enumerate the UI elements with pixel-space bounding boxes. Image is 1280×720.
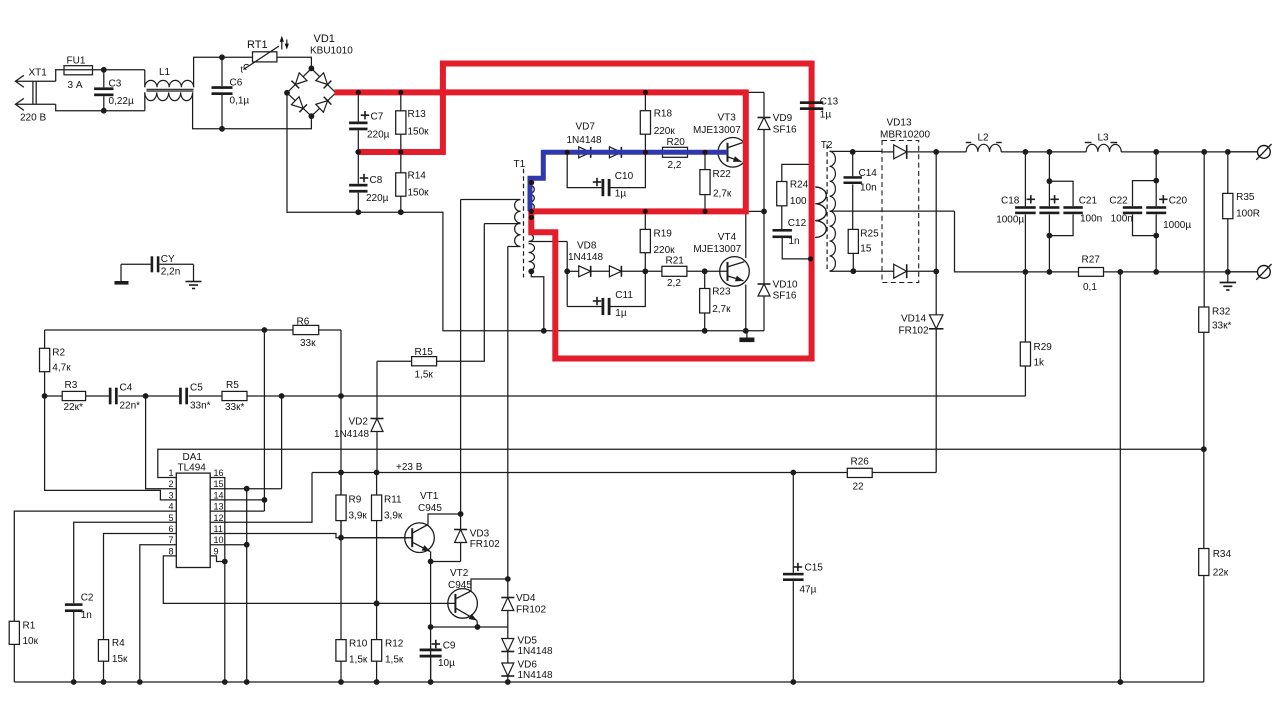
diode VD3 FR102: [460, 200, 462, 529]
svg-text:VD6: VD6: [518, 660, 538, 671]
wire +23V rail: [312, 472, 794, 474]
wire w2 column to C11: [566, 242, 568, 307]
svg-text:C945: C945: [418, 503, 442, 514]
wire pin16 pin9 to ground rail: [210, 478, 225, 683]
resistor R9: [338, 470, 344, 476]
wire pin3 from R2 R3 node: [45, 396, 177, 500]
ground rail bottom: [14, 681, 1204, 683]
capacitor C7: [355, 90, 361, 96]
diode VD5 1N4148: [507, 627, 509, 639]
T1 winding w3 base drive VT4: [529, 244, 535, 271]
resistor R21: [662, 266, 687, 276]
output terminal plus: [1228, 151, 1258, 153]
svg-text:VT4: VT4: [718, 232, 737, 243]
wire C7C8 midpoint to C13 loop: [358, 64, 812, 153]
svg-text:C8: C8: [370, 175, 383, 186]
svg-text:VD9: VD9: [773, 113, 793, 124]
resistor R10: [338, 535, 344, 541]
svg-text:1µ: 1µ: [820, 110, 832, 121]
wire R2 R6 rail: [45, 329, 265, 331]
svg-text:CY: CY: [161, 254, 175, 265]
chassis ground symbol: [746, 331, 748, 338]
diode VD9 SF16: [746, 91, 764, 93]
svg-text:R5: R5: [226, 380, 239, 391]
svg-text:220µ: 220µ: [366, 193, 389, 204]
svg-text:VD2: VD2: [349, 417, 369, 428]
diode VD14 FR102: [935, 271, 937, 314]
svg-text:MJE13007: MJE13007: [693, 125, 741, 136]
diode VD10 SF16: [758, 284, 770, 296]
svg-text:VD10: VD10: [773, 280, 798, 291]
svg-text:VD5: VD5: [518, 636, 538, 647]
svg-text:VT1: VT1: [420, 491, 439, 502]
capacitor C5: [179, 388, 182, 405]
wire base drive path w1 to VT3 base: [530, 152, 728, 211]
svg-text:1000µ: 1000µ: [996, 215, 1024, 226]
svg-text:R13: R13: [408, 109, 427, 120]
junction dots on highlighted paths: [356, 90, 361, 95]
T2 secondary winding: [830, 151, 836, 271]
svg-text:T1: T1: [514, 159, 526, 170]
earth ground at output: [1227, 272, 1229, 283]
capacitor C18: [1023, 149, 1029, 155]
svg-text:R32: R32: [1212, 307, 1231, 318]
red highlight primary current path main loop: [335, 92, 746, 211]
svg-text:0,1µ: 0,1µ: [230, 96, 250, 107]
wire pin8 to VT2 base line: [163, 556, 455, 604]
svg-text:MBR10200: MBR10200: [880, 130, 930, 141]
wire bridge minus to C8 rail: [287, 93, 358, 212]
svg-text:R2: R2: [52, 348, 65, 359]
svg-text:VD8: VD8: [577, 241, 597, 252]
svg-text:14: 14: [214, 490, 224, 500]
svg-text:2,2: 2,2: [667, 278, 681, 289]
resistor R6: [293, 325, 319, 334]
svg-text:R35: R35: [1236, 192, 1255, 203]
wire R26 to VD14 column: [935, 333, 937, 473]
svg-text:22: 22: [853, 482, 865, 493]
resistor R12: [374, 601, 380, 607]
svg-text:R4: R4: [112, 638, 125, 649]
wire VD13 cathodes column: [933, 149, 939, 155]
svg-text:VT3: VT3: [718, 113, 737, 124]
wire T1 primary tap to R15: [484, 223, 520, 225]
svg-text:L1: L1: [159, 67, 171, 78]
capacitor C2: [65, 603, 83, 606]
svg-text:R10: R10: [349, 639, 368, 650]
svg-text:R25: R25: [860, 229, 879, 240]
svg-text:4,7к: 4,7к: [52, 363, 71, 374]
svg-text:1n: 1n: [789, 236, 800, 247]
svg-text:22n*: 22n*: [120, 401, 141, 412]
wire pin11 to VT1 base: [210, 534, 412, 538]
svg-text:10: 10: [214, 535, 224, 545]
resistor R35: [1201, 149, 1207, 155]
capacitor C9: [420, 649, 442, 652]
capacitor CY: [121, 263, 151, 265]
T2 primary winding: [815, 187, 826, 237]
resistor R15: [377, 360, 412, 362]
svg-text:R14: R14: [408, 171, 427, 182]
wire secondary top to VD13: [882, 151, 894, 153]
svg-text:100: 100: [790, 196, 807, 207]
wire pin15 pin10 ground column: [246, 489, 248, 682]
svg-text:1,5к: 1,5к: [349, 655, 368, 666]
svg-text:33n*: 33n*: [190, 401, 211, 412]
svg-text:9: 9: [214, 546, 219, 556]
svg-text:1000µ: 1000µ: [1163, 220, 1191, 231]
svg-text:1k: 1k: [1034, 358, 1046, 369]
wire VT4 emitter to ground: [745, 285, 747, 331]
T2 primary winding redrawn: [815, 187, 826, 237]
wire feedback line R3 C4 C5 R5: [45, 395, 63, 397]
svg-text:2,7к: 2,7к: [712, 304, 731, 315]
svg-text:12: 12: [214, 513, 224, 523]
wire T2 primary red column: [811, 165, 813, 359]
svg-text:22к*: 22к*: [64, 402, 83, 413]
svg-text:FR102: FR102: [470, 539, 500, 550]
svg-text:100n: 100n: [1080, 214, 1102, 225]
svg-text:4: 4: [168, 502, 173, 512]
rectifier VD13 MBR10200 dashed box: [882, 141, 919, 283]
svg-text:R21: R21: [666, 256, 685, 267]
svg-text:R11: R11: [384, 495, 402, 506]
resistor R23: [687, 270, 728, 272]
wire pin13: [210, 510, 264, 512]
svg-text:R34: R34: [1213, 549, 1232, 560]
svg-text:C21: C21: [1079, 196, 1098, 207]
svg-text:2,7к: 2,7к: [713, 189, 732, 200]
svg-text:C10: C10: [615, 171, 634, 182]
svg-text:R29: R29: [1034, 342, 1053, 353]
svg-text:C12: C12: [788, 218, 807, 229]
svg-text:1N4148: 1N4148: [568, 252, 603, 263]
svg-text:VD7: VD7: [576, 122, 596, 133]
T1 winding w1 base drive VT3: [528, 180, 534, 186]
resistor R3: [62, 391, 85, 400]
resistor R26: [847, 468, 872, 477]
svg-text:KBU1010: KBU1010: [310, 46, 353, 57]
svg-text:C6: C6: [230, 78, 243, 89]
svg-text:C22: C22: [1109, 196, 1128, 207]
wire pin14: [210, 499, 264, 501]
svg-text:MJE13007: MJE13007: [693, 244, 741, 255]
wire w3 bottom to negative rail: [531, 271, 544, 330]
svg-text:2: 2: [168, 479, 173, 489]
svg-text:1,5к: 1,5к: [385, 655, 404, 666]
svg-text:1,5к: 1,5к: [415, 370, 434, 381]
capacitor C6: [219, 54, 225, 60]
wire +23V to C15: [790, 470, 796, 476]
svg-text:C9: C9: [443, 641, 456, 652]
svg-text:FU1: FU1: [67, 56, 86, 67]
svg-text:3,9к: 3,9к: [349, 511, 368, 522]
wire control ground return column: [1119, 272, 1121, 682]
capacitor C19 electrolytic: [1047, 149, 1053, 155]
wire VT2 emitter: [476, 621, 479, 628]
wire center tap to 0V rail: [955, 211, 1026, 272]
svg-text:220к: 220к: [654, 245, 676, 256]
wire pin13 pin14 column: [263, 330, 265, 511]
wire pin1 to R32 R34 node: [158, 449, 1204, 477]
wire w2 bottom to VD8 column: [529, 241, 568, 243]
svg-text:TL494: TL494: [178, 463, 207, 474]
svg-text:VD1: VD1: [314, 33, 335, 45]
resistor R2: [44, 330, 46, 348]
svg-text:C18: C18: [1001, 196, 1020, 207]
diode VD13 top: [894, 145, 907, 159]
capacitor C8: [355, 149, 361, 155]
svg-text:2,2: 2,2: [668, 160, 682, 171]
svg-text:3 А: 3 А: [68, 80, 83, 91]
wire VT3 collector to rail: [745, 92, 747, 140]
resistor R5: [222, 391, 247, 400]
svg-text:220к: 220к: [654, 126, 676, 137]
svg-text:1µ: 1µ: [615, 308, 627, 319]
inductor L2: [966, 144, 1001, 152]
capacitor C14: [850, 149, 856, 155]
svg-text:C14: C14: [859, 168, 878, 179]
svg-text:FR102: FR102: [516, 605, 546, 616]
wire +310V rail: [336, 91, 746, 93]
svg-text:33к*: 33к*: [1212, 321, 1231, 332]
svg-text:220µ: 220µ: [367, 130, 390, 141]
svg-text:16: 16: [214, 468, 224, 478]
svg-text:0,22µ: 0,22µ: [109, 96, 134, 107]
svg-text:R18: R18: [654, 109, 673, 120]
svg-text:SF16: SF16: [773, 291, 797, 302]
svg-text:R24: R24: [790, 180, 809, 191]
svg-text:1N4148: 1N4148: [334, 429, 369, 440]
capacitor C4: [109, 388, 112, 405]
svg-text:+23 В: +23 В: [396, 462, 423, 473]
wire VT1 emitter to C9 column: [430, 552, 432, 683]
wire VD3 bottom link: [431, 561, 461, 563]
wire C13 column: [811, 100, 813, 103]
resistor R13: [398, 90, 404, 96]
wire pin6 to R4: [104, 534, 177, 640]
svg-text:C5: C5: [190, 383, 203, 394]
svg-text:7: 7: [168, 535, 173, 545]
capacitor C21: [1047, 178, 1053, 184]
svg-text:220 В: 220 В: [20, 113, 46, 124]
wire negative rail under T1: [358, 212, 544, 331]
wire midpoint to VT4 collector: [745, 211, 747, 258]
svg-text:33к: 33к: [300, 338, 316, 349]
wire ground line VT3 VT4 stage: [544, 330, 764, 332]
svg-text:33к*: 33к*: [225, 402, 244, 413]
svg-text:R3: R3: [65, 380, 78, 391]
svg-text:10n: 10n: [860, 183, 877, 194]
resistor R19: [644, 211, 646, 229]
capacitor C15: [783, 573, 804, 576]
svg-text:3: 3: [168, 490, 173, 500]
wire T2 secondary top: [830, 150, 882, 152]
thermistor RT1: [253, 52, 277, 62]
wire pin2 to C4 C5 node: [146, 396, 177, 489]
svg-text:R1: R1: [23, 621, 36, 632]
svg-text:10µ: 10µ: [438, 658, 455, 669]
diode VD13 bottom: [894, 264, 907, 278]
resistor R1: [9, 621, 19, 644]
earth ground at CY: [186, 281, 202, 283]
svg-text:150к: 150к: [408, 188, 430, 199]
resistor R22: [704, 152, 706, 169]
svg-text:XT1: XT1: [29, 68, 48, 79]
svg-text:1µ: 1µ: [615, 189, 627, 200]
svg-text:C15: C15: [805, 563, 824, 574]
svg-text:R12: R12: [385, 639, 404, 650]
diode VD2 1N4148: [376, 361, 378, 417]
arrows beside RT1: [281, 40, 283, 50]
svg-text:15: 15: [214, 479, 224, 489]
resistor R32: [1203, 152, 1205, 307]
svg-text:1n: 1n: [81, 610, 92, 621]
svg-text:C13: C13: [820, 97, 839, 108]
resistor R27: [1079, 268, 1104, 277]
wire R5 node down to pin15: [281, 396, 283, 489]
svg-text:1N4148: 1N4148: [518, 670, 553, 681]
T1 winding w2 current sense: [528, 215, 534, 221]
wire +12V rail: [936, 151, 966, 153]
capacitor C22: [1153, 178, 1159, 184]
svg-text:11: 11: [214, 524, 223, 534]
svg-text:6: 6: [168, 524, 173, 534]
svg-text:1: 1: [168, 468, 173, 478]
wire VT2 collector: [471, 579, 508, 591]
svg-text:15к: 15к: [112, 654, 128, 665]
svg-text:C4: C4: [120, 383, 133, 394]
wire T1 to VT2 collector column: [507, 247, 509, 580]
svg-text:150к: 150к: [408, 127, 430, 138]
svg-text:R27: R27: [1082, 255, 1101, 266]
fuse FU1: [64, 66, 93, 75]
svg-text:C20: C20: [1169, 196, 1188, 207]
svg-text:SF16: SF16: [773, 125, 797, 136]
svg-text:R20: R20: [667, 137, 686, 148]
IC DA1 TL494: [176, 473, 210, 567]
svg-text:8: 8: [168, 546, 173, 556]
T1 primary winding left: [515, 200, 521, 247]
svg-text:1N4148: 1N4148: [567, 135, 602, 146]
svg-text:VT2: VT2: [450, 568, 469, 579]
svg-text:100R: 100R: [1236, 209, 1260, 220]
svg-text:R22: R22: [713, 169, 732, 180]
svg-text:L2: L2: [978, 133, 990, 144]
red highlight T1 to T2 loop: [358, 64, 811, 359]
capacitor C13: [800, 101, 823, 104]
svg-text:C2: C2: [81, 593, 94, 604]
svg-text:R26: R26: [851, 457, 870, 468]
svg-text:FR102: FR102: [899, 326, 929, 337]
diode VD6 1N4148: [502, 663, 514, 676]
svg-text:RT1: RT1: [247, 39, 268, 51]
resistor R25: [848, 229, 858, 253]
wire midpoint to VD9 VD10 column: [746, 210, 764, 212]
resistor R34: [1201, 446, 1207, 452]
wire emitter rail to VD4 VD5 junction: [431, 626, 508, 628]
svg-text:1N4148: 1N4148: [518, 646, 553, 657]
wire R6 to R9 column: [340, 330, 342, 538]
resistor R20: [663, 147, 688, 157]
wire pin7 to ground rail: [140, 545, 177, 682]
capacitor C3: [101, 67, 107, 73]
wire 0V rail: [1025, 271, 1078, 273]
svg-text:2,2n: 2,2n: [161, 267, 180, 278]
wire T2 center tap: [830, 210, 955, 212]
svg-text:C7: C7: [371, 112, 384, 123]
wire pin12 to +23V rail: [210, 473, 312, 523]
svg-text:VD13: VD13: [887, 118, 912, 129]
resistor R4: [98, 640, 108, 662]
resistor R24 and capacitor C12 snubber: [782, 164, 812, 181]
svg-text:R15: R15: [415, 347, 434, 358]
svg-text:C3: C3: [109, 79, 122, 90]
resistor R29: [1024, 272, 1026, 342]
resistor R18: [644, 92, 646, 110]
wire pin15 to R5 node column: [210, 488, 281, 490]
svg-text:R19: R19: [654, 229, 673, 240]
svg-text:R9: R9: [349, 495, 362, 506]
svg-text:R23: R23: [712, 287, 731, 298]
wire VD8 line: [567, 270, 579, 272]
resistor R11: [374, 470, 380, 476]
svg-text:VD4: VD4: [516, 593, 536, 604]
svg-text:5: 5: [168, 513, 173, 523]
svg-text:10к: 10к: [23, 636, 39, 647]
blue highlight base drive path: [530, 152, 728, 211]
inductor L3: [1086, 144, 1121, 152]
svg-text:C11: C11: [615, 290, 633, 301]
svg-text:R6: R6: [297, 317, 310, 328]
svg-text:L3: L3: [1098, 133, 1110, 144]
wire pin5 to C2: [74, 522, 177, 603]
svg-text:15: 15: [860, 244, 872, 255]
svg-text:VD14: VD14: [901, 314, 926, 325]
svg-text:0,1: 0,1: [1083, 282, 1097, 293]
output terminal minus: [1228, 271, 1258, 273]
capacitor C11: [567, 306, 601, 308]
svg-text:13: 13: [214, 502, 224, 512]
svg-text:47µ: 47µ: [800, 585, 817, 596]
svg-text:DA1: DA1: [183, 452, 203, 463]
svg-text:3,9к: 3,9к: [384, 511, 403, 522]
diode VD4 FR102: [507, 579, 509, 597]
wire half-bridge midpoint: [745, 165, 747, 211]
capacitor C10: [567, 152, 601, 187]
wire T1 primary bottom to VT2 collector column: [508, 246, 521, 248]
wire T1 primary top to VT1 collector column: [461, 199, 521, 201]
svg-text:22к: 22к: [1213, 568, 1229, 579]
wire T2 secondary bottom: [830, 270, 894, 272]
svg-text:100n: 100n: [1111, 214, 1133, 225]
wire pin4 to R1: [14, 511, 176, 621]
connector XT1: [15, 75, 24, 87]
capacitor C20: [1153, 149, 1159, 155]
wire VT1 collector: [428, 514, 461, 525]
resistor R14: [398, 149, 404, 155]
